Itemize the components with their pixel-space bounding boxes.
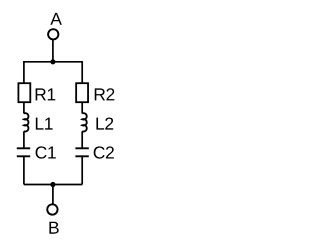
wire bottom rail xyxy=(24,184,82,186)
resistor R1 xyxy=(18,83,30,102)
inductor L2 xyxy=(82,113,87,131)
wire xyxy=(23,102,25,113)
wire xyxy=(23,131,25,148)
wire xyxy=(52,185,54,205)
wire xyxy=(23,61,25,83)
label R2 xyxy=(95,88,115,100)
resistor R2 xyxy=(76,83,88,102)
junction bottom xyxy=(50,182,55,187)
node B xyxy=(49,222,58,234)
node A xyxy=(50,13,62,25)
wire xyxy=(81,102,83,113)
inductor L1 xyxy=(24,113,29,131)
wire xyxy=(81,61,83,83)
wire top rail xyxy=(24,61,82,63)
label R1 xyxy=(36,88,56,100)
wire xyxy=(52,40,54,62)
junction top xyxy=(50,59,55,64)
label C1 xyxy=(36,146,56,158)
capacitor C2 xyxy=(75,148,88,156)
wire xyxy=(81,156,83,184)
wire xyxy=(81,131,83,148)
capacitor C1 xyxy=(17,148,30,156)
label L1 xyxy=(36,118,53,130)
terminal A xyxy=(48,29,58,39)
terminal B xyxy=(47,204,57,214)
label L2 xyxy=(96,117,113,129)
label C2 xyxy=(94,146,114,158)
wire xyxy=(23,156,25,184)
